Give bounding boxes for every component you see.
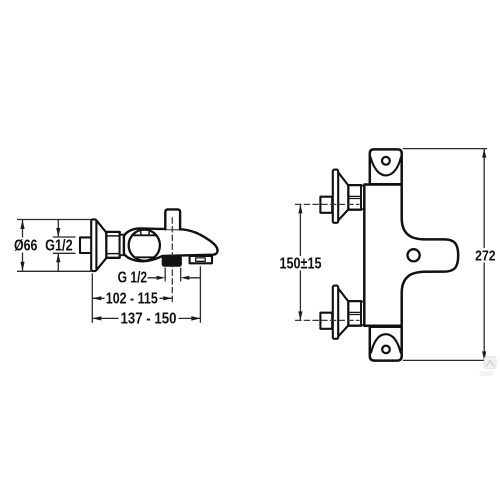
lower inlet pipe stub	[320, 313, 332, 329]
outlet extension line	[199, 266, 201, 323]
upper collar	[361, 186, 364, 209]
137-150 text	[119, 312, 179, 326]
handle bottom chord line	[134, 256, 154, 258]
escutcheon flange (O66)	[91, 219, 96, 271]
center dashed line of spout outlet	[171, 218, 173, 302]
shower outlet	[190, 256, 212, 263]
svg-text:272: 272	[475, 249, 496, 265]
150±15 arrowheads	[298, 204, 302, 213]
watermark logo box	[484, 357, 496, 369]
watermark chevron	[487, 360, 494, 366]
O66 extension lines	[17, 220, 91, 272]
top mounting plate	[370, 149, 402, 184]
shower outlet inner lip	[196, 258, 206, 261]
svg-text:G 1/2: G 1/2	[118, 270, 148, 287]
G1/2 arrowheads	[56, 228, 60, 237]
watermark faint bar	[480, 371, 494, 376]
top plate arch	[371, 158, 401, 176]
bottom plate hole	[382, 346, 390, 354]
handle top chord line	[132, 234, 157, 236]
diverter knob	[165, 209, 180, 229]
272 extension lines	[403, 149, 487, 361]
bottom mounting plate	[370, 327, 402, 361]
272 arrowheads	[482, 149, 486, 158]
connection nut	[106, 232, 119, 258]
102-115 dimension line	[92, 297, 172, 299]
lower nut facet lines	[349, 312, 360, 314]
aerator (black)	[162, 256, 181, 266]
left wall extension line	[91, 274, 93, 323]
102-115 text	[105, 291, 160, 305]
272 dimension line	[483, 149, 485, 361]
102-115 arrowheads	[92, 296, 101, 300]
G 1/2 ticks (aerator thread)	[165, 268, 181, 282]
handle face circle	[129, 230, 160, 261]
lower nut	[348, 301, 361, 326]
lower inlet dashed axis	[296, 319, 360, 321]
137-150 arrowheads	[92, 316, 101, 320]
upper nut	[348, 185, 361, 210]
svg-text:102 - 115: 102 - 115	[106, 291, 158, 308]
272 text	[474, 248, 498, 263]
bottom plate arch	[371, 334, 401, 352]
137-150 right arrowhead redraw	[191, 316, 200, 320]
G 1/2 arrowheads	[157, 276, 166, 280]
wall pipe stub G1/2	[80, 237, 92, 253]
137-150 dimension line	[92, 317, 200, 319]
body + spout silhouette	[124, 228, 218, 261]
O66 text	[13, 238, 39, 253]
upper nut facet lines	[349, 196, 360, 198]
top plate hole	[382, 157, 390, 165]
O66 arrowheads	[20, 220, 24, 230]
mixer body with spout bump	[364, 185, 458, 326]
G1/2 text	[44, 238, 74, 252]
G1/2 extension ticks	[53, 237, 76, 253]
upper inlet pipe stub	[320, 197, 332, 213]
lower collar	[361, 302, 364, 325]
svg-text:Ø66: Ø66	[14, 238, 38, 255]
body circle detail	[408, 249, 420, 261]
svg-text:150±15: 150±15	[280, 256, 322, 273]
svg-text:G1/2: G1/2	[45, 238, 73, 255]
lower escutcheon cone	[338, 289, 348, 337]
upper inlet dashed axis	[296, 203, 360, 205]
O66 dimension line	[22, 220, 24, 272]
150±15 dimension line	[299, 204, 301, 320]
G 1/2 leader lines	[148, 277, 201, 279]
handle top cap ticks	[140, 230, 149, 235]
lower escutcheon flange	[333, 286, 338, 339]
upper escutcheon cone	[338, 173, 348, 221]
G1/2 dimension line	[57, 220, 59, 272]
upper escutcheon flange	[333, 170, 338, 223]
collar	[120, 235, 125, 256]
150±15 text	[277, 256, 324, 271]
escutcheon cone	[97, 221, 107, 270]
svg-text:137 - 150: 137 - 150	[121, 311, 177, 328]
nut facet lines	[107, 236, 119, 254]
